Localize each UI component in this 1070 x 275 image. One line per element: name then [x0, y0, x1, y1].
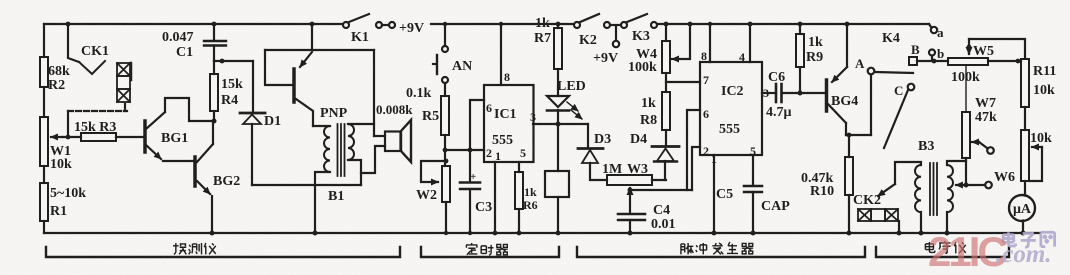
wire speaker feed	[373, 50, 375, 136]
svg-text:a: a	[937, 25, 944, 40]
svg-text:3: 3	[763, 86, 769, 100]
diode D3	[587, 124, 589, 148]
switch K4 pole A	[870, 75, 872, 135]
resistor R11	[1021, 59, 1029, 107]
label detector section	[173, 243, 186, 254]
svg-text:W2: W2	[416, 188, 437, 203]
svg-text:0.1k: 0.1k	[406, 86, 432, 101]
wire	[116, 136, 143, 138]
switch K2	[574, 22, 580, 28]
svg-text:W6: W6	[994, 170, 1015, 185]
svg-text:B1: B1	[328, 189, 344, 204]
wire pin1	[713, 155, 715, 233]
svg-text:0.008k: 0.008k	[376, 102, 413, 117]
svg-text:C5: C5	[716, 187, 733, 202]
label electrotherapy section	[925, 242, 935, 252]
svg-text:5: 5	[520, 146, 526, 160]
label timer section	[466, 243, 477, 255]
svg-text:5: 5	[750, 144, 756, 158]
wire pin3 node	[533, 123, 588, 125]
wire R4 top to D1	[214, 60, 253, 62]
svg-text:CK2: CK2	[853, 193, 881, 208]
svg-text:47k: 47k	[975, 110, 997, 125]
capacitor C3	[469, 150, 471, 181]
capacitor C4	[629, 190, 631, 213]
svg-text:BG1: BG1	[161, 131, 188, 146]
potentiometer W1	[40, 117, 48, 166]
svg-text:100k: 100k	[951, 70, 980, 85]
svg-text:0.047: 0.047	[162, 30, 194, 45]
wire pin1	[494, 162, 496, 233]
svg-text:A: A	[855, 56, 865, 71]
transformer B1 secondary	[348, 124, 354, 160]
connector CK1 socket	[117, 63, 131, 102]
wire	[43, 166, 45, 183]
wire	[43, 221, 45, 233]
wire dashed mechanical link	[68, 110, 127, 112]
svg-text:W3: W3	[627, 162, 648, 177]
svg-text:CAP: CAP	[761, 199, 790, 214]
op-amp U1 IC1 555 box	[484, 85, 534, 162]
svg-text:PNP: PNP	[320, 106, 348, 121]
wire top rail timer section	[431, 23, 574, 25]
node contact C	[908, 84, 915, 91]
svg-text:R6: R6	[523, 198, 538, 212]
svg-text:μA: μA	[1013, 202, 1032, 217]
svg-text:1M: 1M	[602, 162, 622, 177]
watermark 21IC	[928, 228, 1052, 275]
wire left column	[43, 24, 45, 57]
svg-text:C3: C3	[475, 200, 492, 215]
wire	[43, 87, 45, 117]
wire base line	[62, 136, 81, 138]
bracket electrotherapy	[876, 247, 1009, 257]
svg-text:b: b	[937, 46, 944, 61]
svg-text:15k: 15k	[221, 77, 243, 92]
svg-text:0.01: 0.01	[651, 217, 676, 232]
svg-text:K4: K4	[882, 31, 900, 46]
resistor R1	[40, 183, 48, 221]
svg-text:1: 1	[495, 149, 501, 163]
wire pin5 to R6	[518, 162, 520, 172]
svg-text:BG4: BG4	[831, 94, 858, 109]
svg-text:R2: R2	[48, 78, 65, 93]
svg-text:100k: 100k	[628, 60, 657, 75]
switch K1	[343, 22, 349, 28]
svg-text:R9: R9	[806, 50, 823, 65]
op-amp U2 IC2 555 box	[700, 62, 762, 155]
svg-text:+9V: +9V	[593, 51, 618, 66]
node CK1 probe	[68, 24, 79, 62]
capacitor C1	[213, 24, 215, 40]
svg-text:LED: LED	[557, 79, 586, 94]
wire W3 right	[652, 179, 666, 181]
relay J	[557, 124, 559, 171]
wire PNP feedback loop	[265, 50, 292, 85]
svg-text:5~10k: 5~10k	[50, 186, 86, 201]
svg-text:C6: C6	[768, 70, 785, 85]
LED	[547, 96, 569, 107]
bracket timer	[421, 247, 559, 257]
bracket pulse generator	[577, 247, 865, 257]
svg-text:68k: 68k	[48, 64, 70, 79]
svg-text:B: B	[911, 42, 920, 57]
wire pin8 pin4	[710, 24, 750, 62]
svg-text:R4: R4	[221, 93, 238, 108]
svg-text:8: 8	[701, 49, 707, 63]
svg-text:555: 555	[719, 122, 740, 137]
resistor R3	[81, 133, 116, 141]
node contact a of K4	[929, 24, 931, 27]
diode D1	[252, 61, 254, 112]
pushbutton AN	[444, 24, 446, 46]
node tap W6	[956, 184, 966, 186]
section labels (Chinese drawn as strokes)	[173, 241, 966, 255]
watermark dianziwang	[1003, 232, 1016, 246]
connector CK2 socket	[858, 209, 898, 221]
svg-text:15k R3: 15k R3	[74, 120, 116, 135]
svg-text:D1: D1	[264, 114, 281, 129]
node +9V stub between K2 K3	[615, 27, 617, 40]
transformer B1 primary	[313, 125, 330, 127]
resistor R2	[40, 57, 48, 87]
svg-text:1k: 1k	[524, 185, 537, 199]
svg-text:1k: 1k	[808, 35, 823, 50]
diode D4	[652, 145, 679, 148]
svg-text:D4: D4	[630, 132, 647, 147]
wire pin7	[665, 73, 667, 92]
wire D1 bottom to B1 secondary	[252, 184, 361, 186]
transistor BG2	[193, 157, 197, 186]
wire pin8	[500, 24, 502, 85]
svg-text:K3: K3	[632, 29, 650, 44]
svg-text:8: 8	[504, 70, 510, 84]
resistor R10	[848, 135, 850, 157]
svg-text:R1: R1	[50, 204, 67, 219]
node top rail junction dots	[66, 22, 315, 27]
svg-text:D3: D3	[594, 132, 611, 147]
potentiometer 10k lower	[1021, 130, 1029, 181]
svg-text:W5: W5	[973, 44, 994, 59]
svg-text:7: 7	[703, 73, 709, 87]
svg-text:R11: R11	[1033, 64, 1056, 79]
svg-text:R10: R10	[810, 184, 834, 199]
potentiometer W5	[948, 58, 988, 65]
resistor R4	[213, 61, 215, 74]
transformer B3 primary	[915, 165, 921, 212]
capacitor C6	[762, 92, 775, 94]
wire top rail left section	[44, 23, 343, 25]
svg-text:R7: R7	[534, 31, 551, 46]
svg-text:C4: C4	[653, 203, 670, 218]
resistor R5	[444, 83, 446, 96]
potentiometer W2	[442, 166, 450, 202]
switch K3	[627, 14, 647, 22]
svg-text:C1: C1	[176, 45, 193, 60]
svg-text:1k: 1k	[535, 16, 550, 31]
svg-text:4.7μ: 4.7μ	[766, 105, 792, 120]
transistor BG1	[143, 121, 147, 152]
svg-text:CK1: CK1	[81, 44, 109, 59]
svg-text:2: 2	[486, 146, 492, 160]
svg-text:.com.: .com.	[996, 241, 1052, 268]
node contact B	[909, 57, 917, 65]
svg-text:6: 6	[703, 107, 709, 121]
svg-text:K2: K2	[579, 33, 597, 48]
svg-text:IC1: IC1	[494, 107, 517, 122]
svg-text:6: 6	[486, 101, 492, 115]
connector CK2 plug	[878, 184, 895, 196]
wire top rail pulse section	[657, 23, 929, 25]
wire bottom ground rail	[44, 232, 1040, 234]
transformer B3 core	[930, 163, 937, 215]
svg-text:W7: W7	[975, 96, 996, 111]
svg-text:AN: AN	[452, 59, 472, 74]
svg-text:2: 2	[703, 144, 709, 158]
resistor R8	[662, 92, 670, 130]
resistor R6	[515, 172, 523, 209]
transformer B3 secondary	[947, 165, 953, 212]
svg-text:10k: 10k	[50, 157, 72, 172]
svg-text:C: C	[894, 83, 903, 98]
svg-text:3: 3	[530, 110, 536, 124]
potentiometer W7	[965, 66, 967, 112]
potentiometer W4	[665, 24, 667, 41]
svg-text:R5: R5	[422, 109, 439, 124]
potentiometer W3	[607, 175, 652, 185]
svg-text:1: 1	[711, 152, 717, 166]
svg-text:B3: B3	[918, 139, 934, 154]
svg-text:4: 4	[739, 50, 745, 64]
transistor PNP	[292, 69, 296, 102]
meter uA	[1009, 195, 1035, 221]
svg-text:K1: K1	[351, 30, 369, 45]
resistor R7	[557, 24, 559, 28]
svg-text:IC2: IC2	[721, 84, 744, 99]
svg-text:R8: R8	[640, 113, 657, 128]
svg-text:BG2: BG2	[213, 174, 240, 189]
svg-text:+9V: +9V	[399, 21, 424, 36]
svg-text:555: 555	[492, 133, 513, 148]
bracket detector	[46, 247, 400, 257]
transistor BG4	[825, 80, 829, 111]
capacitor C5	[752, 155, 754, 185]
svg-text:1k: 1k	[641, 96, 656, 111]
resistor R9	[799, 24, 801, 34]
svg-text:10k: 10k	[1033, 83, 1055, 98]
label pulse generator section	[681, 243, 693, 254]
transformer B1 core	[338, 124, 345, 176]
wire trigger node	[445, 149, 484, 151]
speaker	[374, 135, 385, 137]
svg-text:+: +	[470, 171, 476, 183]
wire IC2 pin6 pin2	[687, 110, 700, 190]
svg-text:10k: 10k	[1030, 131, 1052, 146]
